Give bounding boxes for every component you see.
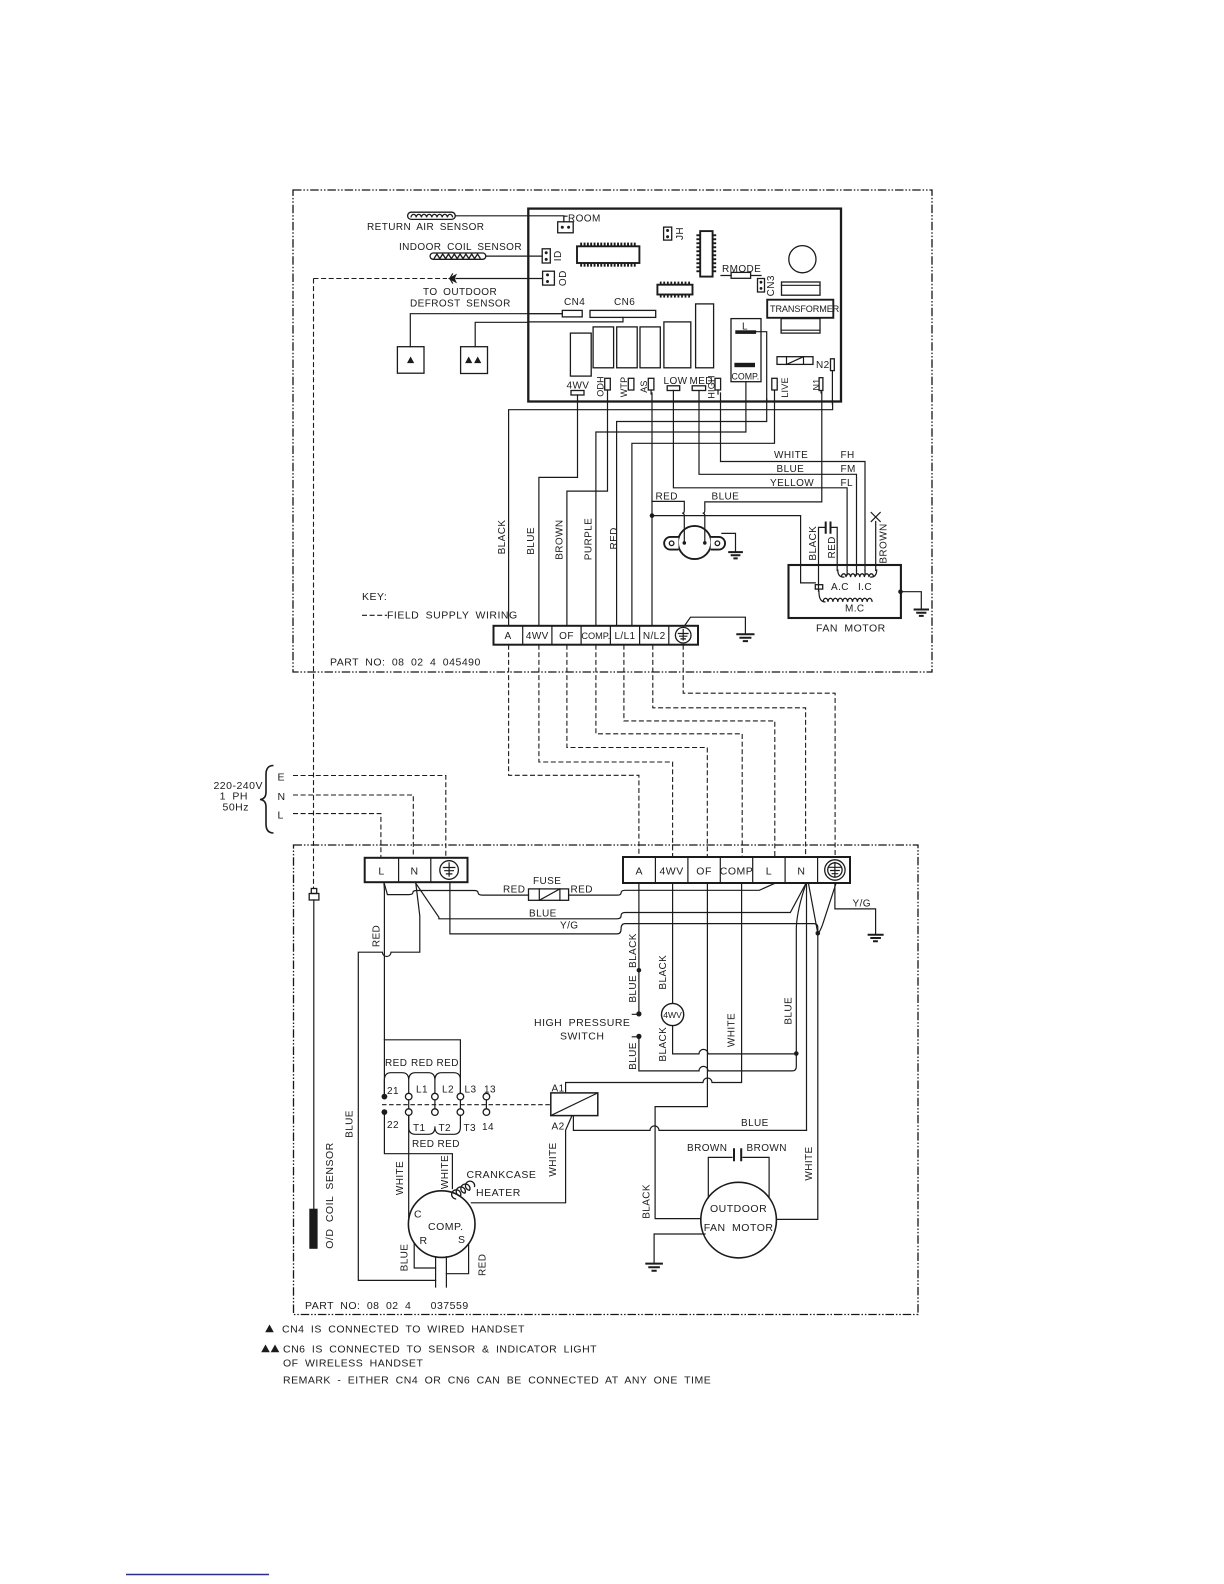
wire fan speed taps into coil bbox=[847, 571, 865, 576]
wire AS pin / N-L2 common with junction bbox=[650, 390, 653, 626]
svg-text:COMP.: COMP. bbox=[732, 372, 760, 382]
contactor terminals 21/22 L1/T1 L2/T2 L3/T3 13/14 bbox=[382, 1093, 490, 1115]
svg-text:WHITE: WHITE bbox=[804, 1146, 815, 1180]
svg-text:FIELD SUPPLY WIRING: FIELD SUPPLY WIRING bbox=[387, 610, 518, 622]
svg-text:RED: RED bbox=[411, 1058, 433, 1069]
svg-text:YELLOW: YELLOW bbox=[770, 478, 814, 489]
O/D coil sensor bulb bbox=[309, 1209, 317, 1249]
wire indoor coil sensor to ID bbox=[486, 255, 542, 257]
wire RED branch to thermostat left bbox=[652, 501, 684, 543]
svg-text:L/L1: L/L1 bbox=[614, 631, 635, 642]
wire BROWN unused with X bbox=[871, 513, 889, 571]
connector JH bbox=[664, 227, 686, 240]
wire motor frame to ground bbox=[654, 1234, 705, 1264]
wire PCB edge to CN4 bbox=[528, 313, 562, 315]
wire LIVE pin to terminal L/L1 second bbox=[632, 390, 775, 626]
relay K5 bbox=[664, 322, 691, 368]
wire ODH pin to terminal OF (BROWN) bbox=[567, 390, 608, 626]
to outdoor defrost sensor arrow and label bbox=[314, 274, 543, 310]
svg-text:PART NO: 08 02 4 045490: PART NO: 08 02 4 045490 bbox=[330, 657, 481, 669]
svg-text:FM: FM bbox=[841, 464, 856, 475]
svg-text:SWITCH: SWITCH bbox=[560, 1031, 604, 1043]
svg-text:L: L bbox=[378, 866, 384, 878]
ground (thermostat) bbox=[728, 552, 743, 558]
svg-text:BLACK: BLACK bbox=[808, 526, 819, 561]
inductor A.C/I.C coil bbox=[841, 574, 873, 577]
pin N1 bbox=[812, 378, 823, 391]
note CN6 bbox=[261, 1344, 597, 1370]
svg-text:COMP: COMP bbox=[720, 866, 754, 878]
pin ODH bbox=[595, 376, 610, 397]
svg-text:OD: OD bbox=[558, 270, 569, 286]
svg-text:BLACK: BLACK bbox=[641, 1184, 652, 1219]
fuse F2 bbox=[529, 876, 569, 900]
wire YG from earth to outdoor bbox=[450, 882, 836, 934]
svg-text:BLUE: BLUE bbox=[628, 1042, 639, 1070]
IC U1 main microcontroller DIP bbox=[577, 243, 639, 267]
pin LIVE bbox=[772, 377, 790, 397]
svg-text:A2: A2 bbox=[552, 1122, 565, 1133]
svg-text:N1: N1 bbox=[812, 379, 822, 391]
svg-text:BLACK: BLACK bbox=[628, 933, 639, 968]
wire A to high pressure switch bbox=[628, 883, 796, 1071]
labels contact numbers bbox=[387, 1085, 496, 1135]
wire N to white motor lead junction bbox=[809, 884, 818, 934]
dashed actuator line bbox=[382, 1104, 550, 1106]
svg-text:HEATER: HEATER bbox=[476, 1187, 521, 1199]
svg-text:RED: RED bbox=[385, 1058, 407, 1069]
wire LOW pin to FL (YELLOW) bbox=[673, 391, 847, 571]
wire N down to compressor common BLUE bbox=[806, 884, 808, 1131]
svg-text:FH: FH bbox=[841, 450, 855, 461]
connector CN4 bbox=[562, 297, 585, 317]
wire thermostat to ground bbox=[722, 533, 736, 552]
svg-text:RED: RED bbox=[477, 1254, 488, 1276]
outdoor terminal block A 4WV OF COMP L N earth bbox=[623, 857, 850, 883]
wire 4WV terminal to 4WV coil bbox=[658, 883, 796, 1062]
thermostat / overload protector bbox=[664, 526, 725, 559]
wire O/D sensor dashed from indoor bbox=[313, 279, 315, 889]
svg-text:T2: T2 bbox=[439, 1123, 452, 1134]
svg-text:AS: AS bbox=[639, 380, 649, 392]
svg-text:N: N bbox=[410, 866, 418, 878]
COMP relay box with L terminal bbox=[731, 319, 761, 382]
svg-text:FL: FL bbox=[841, 478, 854, 489]
svg-text:I.C: I.C bbox=[858, 582, 872, 593]
connector CN6 bbox=[590, 297, 656, 317]
svg-text:RED: RED bbox=[571, 885, 593, 896]
svg-text:BLUE: BLUE bbox=[741, 1118, 769, 1129]
wire CN6 to wireless-handset box bbox=[475, 317, 623, 346]
wire contactor feed branch to L3 bbox=[384, 1040, 460, 1094]
svg-text:FAN MOTOR: FAN MOTOR bbox=[816, 623, 886, 635]
svg-text:BLACK: BLACK bbox=[658, 955, 669, 990]
svg-text:TO OUTDOOR: TO OUTDOOR bbox=[423, 287, 497, 298]
svg-text:A: A bbox=[635, 866, 643, 878]
svg-text:WHITE: WHITE bbox=[548, 1142, 559, 1176]
resistor RMODE bbox=[721, 264, 761, 278]
svg-text:N2: N2 bbox=[816, 360, 830, 371]
svg-text:CRANKCASE: CRANKCASE bbox=[467, 1169, 537, 1181]
footer blue rule bbox=[126, 1574, 269, 1576]
node junction dot bbox=[650, 513, 655, 518]
wire HIGH pin to FH (WHITE) bbox=[718, 390, 865, 571]
fuse F1 on PCB bbox=[777, 357, 813, 365]
svg-text:CN4: CN4 bbox=[564, 297, 585, 308]
wire A2 to crankcase heater bbox=[471, 1116, 572, 1203]
IC U3 small DIP bbox=[657, 282, 692, 298]
svg-text:L: L bbox=[278, 810, 284, 822]
wire CN4 to wired-handset box bbox=[410, 314, 562, 347]
wire 22 to compressor heater end (WHITE) bbox=[384, 1115, 452, 1189]
svg-text:OF WIRELESS HANDSET: OF WIRELESS HANDSET bbox=[283, 1358, 423, 1370]
indoor coil sensor bbox=[399, 242, 522, 259]
outdoor fan motor bbox=[701, 1182, 777, 1258]
wire OF to outdoor fan motor BLACK bbox=[641, 883, 707, 1219]
connector CN3 bbox=[758, 275, 777, 296]
ground (outdoor fan) bbox=[645, 1264, 663, 1271]
wire COMP to contactor A1 bbox=[566, 883, 742, 1093]
4WV solenoid coil bbox=[662, 1003, 684, 1025]
compressor stem bbox=[436, 1257, 447, 1287]
svg-text:RED: RED bbox=[656, 492, 678, 503]
outdoor supply terminal block L N earth bbox=[365, 858, 468, 882]
svg-text:OF: OF bbox=[696, 866, 712, 878]
svg-text:4WV: 4WV bbox=[663, 1010, 682, 1020]
node fan motor frame to ground bbox=[898, 589, 903, 594]
wire top jumper hoops bbox=[384, 1073, 460, 1094]
capacitor C1 (fan) with RED wire bbox=[819, 522, 838, 592]
svg-text:KEY:: KEY: bbox=[362, 591, 387, 603]
node BLUE junction dot bbox=[794, 1051, 799, 1056]
connector ID bbox=[542, 249, 564, 263]
ground (indoor block) bbox=[736, 634, 754, 641]
svg-text:RMODE: RMODE bbox=[722, 264, 761, 275]
svg-text:T1: T1 bbox=[413, 1123, 426, 1134]
wire MED pin to FM (BLUE) bbox=[699, 391, 857, 571]
wire junction to outdoor fan motor WHITE bbox=[776, 933, 817, 1219]
svg-text:BLUE: BLUE bbox=[628, 975, 639, 1003]
svg-text:A: A bbox=[505, 631, 512, 642]
svg-text:CN4 IS CONNECTED TO WIRED HAND: CN4 IS CONNECTED TO WIRED HANDSET bbox=[282, 1324, 525, 1336]
svg-text:4WV: 4WV bbox=[659, 866, 683, 878]
crankcase heater coil bbox=[452, 1169, 537, 1199]
svg-text:OUTDOOR: OUTDOOR bbox=[710, 1203, 767, 1215]
capacitor C2 with BROWN leads bbox=[687, 1143, 787, 1198]
wire RED vertical from L to contactor bbox=[383, 882, 386, 1093]
O/D sensor plug bbox=[309, 889, 319, 901]
svg-text:WHITE: WHITE bbox=[774, 450, 808, 461]
svg-text:N: N bbox=[797, 866, 805, 878]
brace bbox=[260, 766, 274, 834]
connector OD bbox=[543, 270, 569, 286]
svg-text:COMP.: COMP. bbox=[428, 1221, 464, 1233]
wire T1 to compressor C (WHITE) bbox=[395, 1115, 409, 1217]
pin LOW bbox=[664, 376, 688, 391]
svg-text:M.C: M.C bbox=[845, 604, 865, 615]
wire compressor R to stem (BLUE) bbox=[400, 1244, 436, 1272]
svg-text:JH: JH bbox=[675, 227, 686, 240]
wire N2 to terminal A (BLACK) bbox=[509, 371, 833, 626]
svg-text:N/L2: N/L2 bbox=[643, 631, 666, 642]
PCB board outline bbox=[528, 209, 841, 402]
indoor unit dash-dot border bbox=[293, 190, 932, 672]
wire bottom jumper hoops bbox=[409, 1115, 461, 1134]
svg-text:22: 22 bbox=[387, 1120, 399, 1131]
svg-text:Y/G: Y/G bbox=[853, 899, 871, 910]
svg-text:BROWN: BROWN bbox=[879, 523, 890, 563]
svg-text:21: 21 bbox=[387, 1086, 399, 1097]
svg-text:BLUE: BLUE bbox=[400, 1244, 411, 1272]
fan motor input pad bbox=[815, 585, 822, 589]
svg-text:14: 14 bbox=[482, 1122, 494, 1133]
labels RED jumpers bottom bbox=[412, 1139, 460, 1150]
pin WTP bbox=[619, 377, 634, 398]
note CN4 bbox=[265, 1324, 525, 1336]
svg-text:ROOM: ROOM bbox=[568, 214, 601, 225]
svg-text:4WV: 4WV bbox=[526, 631, 549, 642]
inductor M.C coil bbox=[823, 598, 872, 602]
wire indoor block earth to ground bbox=[685, 617, 746, 634]
svg-text:BLUE: BLUE bbox=[777, 464, 805, 475]
wire plug to sensor bulb bbox=[313, 900, 315, 1209]
wire BLUE from N to outdoor N bbox=[416, 883, 806, 919]
svg-text:BLUE: BLUE bbox=[712, 492, 740, 503]
pin 4WV bbox=[567, 381, 590, 396]
wire contactor to BLUE run (compressor common) bbox=[573, 1116, 806, 1131]
wire N to BLUE main vertical bbox=[358, 883, 435, 1280]
node junction bbox=[816, 931, 821, 936]
svg-text:DEFROST SENSOR: DEFROST SENSOR bbox=[410, 299, 511, 310]
wire RED from L through fuse to outdoor L bbox=[384, 882, 775, 895]
fan motor box bbox=[789, 565, 901, 635]
svg-text:13: 13 bbox=[484, 1085, 496, 1096]
svg-text:L: L bbox=[766, 866, 772, 878]
svg-text:L3: L3 bbox=[465, 1085, 477, 1096]
svg-text:INDOOR COIL SENSOR: INDOOR COIL SENSOR bbox=[399, 242, 522, 253]
wire E dashed to earth terminal bbox=[293, 776, 446, 859]
svg-text:ODH: ODH bbox=[595, 376, 605, 397]
connector ROOM bbox=[558, 214, 601, 233]
buzzer circle bbox=[789, 246, 816, 273]
svg-text:RED: RED bbox=[503, 885, 525, 896]
svg-text:LIVE: LIVE bbox=[780, 377, 790, 397]
svg-text:N: N bbox=[278, 791, 286, 803]
wire N dashed to N terminal bbox=[293, 795, 413, 858]
svg-text:RETURN AIR SENSOR: RETURN AIR SENSOR bbox=[367, 222, 484, 233]
svg-text:C: C bbox=[414, 1209, 422, 1221]
svg-text:WHITE: WHITE bbox=[395, 1161, 406, 1195]
svg-text:TRANSFORMER: TRANSFORMER bbox=[770, 304, 840, 314]
wire compressor S to stem (RED) bbox=[446, 1244, 488, 1276]
svg-text:CN3: CN3 bbox=[766, 275, 777, 296]
ground (fan motor) bbox=[914, 610, 929, 616]
relay K6 bbox=[696, 304, 714, 368]
labels RED jumpers top bbox=[385, 1058, 459, 1069]
svg-text:BROWN: BROWN bbox=[687, 1143, 727, 1154]
svg-text:BLUE: BLUE bbox=[526, 527, 537, 555]
svg-text:ID: ID bbox=[553, 250, 564, 261]
switch contacts bbox=[632, 1011, 641, 1039]
svg-text:FAN MOTOR: FAN MOTOR bbox=[704, 1222, 774, 1234]
wireless handset box (double triangle) bbox=[461, 347, 488, 374]
outdoor unit dash-dot border bbox=[294, 845, 919, 1315]
svg-text:OF: OF bbox=[559, 631, 574, 642]
svg-text:WTP: WTP bbox=[619, 377, 629, 398]
svg-text:HIGH PRESSURE: HIGH PRESSURE bbox=[534, 1017, 630, 1029]
relay K1 bbox=[570, 333, 591, 376]
svg-text:PURPLE: PURPLE bbox=[584, 518, 595, 560]
wire COMP-L bar to vertical drop bbox=[756, 332, 767, 402]
svg-text:BROWN: BROWN bbox=[554, 519, 565, 559]
high pressure switch label bbox=[534, 1017, 630, 1043]
svg-text:Y/G: Y/G bbox=[560, 921, 578, 932]
pin HIGH bbox=[706, 375, 720, 398]
field supply wiring dashed runs indoor->outdoor bbox=[509, 645, 639, 857]
svg-text:A.C: A.C bbox=[831, 582, 849, 593]
wire COMP-L to terminal L/L1 bbox=[617, 399, 767, 626]
wire BLACK branch to fan motor bbox=[652, 516, 815, 583]
svg-text:REMARK - EITHER CN4 OR CN6 CAN: REMARK - EITHER CN4 OR CN6 CAN BE CONNEC… bbox=[283, 1375, 711, 1387]
wire N to BLUE junction (4WV coil return) bbox=[796, 884, 806, 1054]
relay K3 bbox=[617, 327, 638, 368]
wired handset box (triangle) bbox=[397, 347, 424, 374]
svg-text:BROWN: BROWN bbox=[747, 1143, 787, 1154]
svg-text:CN6 IS CONNECTED TO SENSOR & I: CN6 IS CONNECTED TO SENSOR & INDICATOR L… bbox=[283, 1344, 597, 1356]
wire N1 to thermostat right (BLUE) bbox=[703, 391, 822, 543]
svg-text:RED: RED bbox=[438, 1139, 460, 1150]
svg-text:RED: RED bbox=[412, 1139, 434, 1150]
wire 4WV pin to terminal 4WV (BLUE) bbox=[539, 395, 578, 626]
compressor COMP bbox=[408, 1191, 475, 1258]
svg-text:L2: L2 bbox=[442, 1085, 454, 1096]
svg-text:RED: RED bbox=[371, 925, 382, 947]
svg-text:RED: RED bbox=[437, 1058, 459, 1069]
pin N2 bbox=[816, 359, 834, 371]
return air sensor RT bbox=[367, 212, 484, 233]
wire COMP relay to terminal COMP. (PURPLE) bbox=[596, 382, 746, 626]
svg-text:WHITE: WHITE bbox=[440, 1155, 451, 1189]
svg-text:BLUE: BLUE bbox=[529, 909, 557, 920]
svg-text:R: R bbox=[420, 1235, 428, 1247]
svg-text:PART NO: 08 02 4 037559: PART NO: 08 02 4 037559 bbox=[305, 1300, 469, 1312]
contactor coil A1/A2 bbox=[551, 1084, 598, 1133]
svg-text:COMP.: COMP. bbox=[581, 631, 610, 641]
svg-text:L1: L1 bbox=[416, 1085, 428, 1096]
svg-text:RED: RED bbox=[827, 536, 838, 558]
svg-text:BLACK: BLACK bbox=[497, 520, 508, 555]
transformer T1 bbox=[767, 282, 839, 333]
relay K4 bbox=[640, 327, 660, 368]
svg-text:A1: A1 bbox=[552, 1084, 565, 1095]
svg-text:E: E bbox=[278, 772, 286, 784]
svg-text:FUSE: FUSE bbox=[533, 876, 561, 887]
pin MED bbox=[690, 376, 713, 391]
pin AS bbox=[639, 378, 654, 393]
svg-text:S: S bbox=[458, 1234, 466, 1246]
wire return air sensor to ROOM bbox=[455, 216, 564, 222]
svg-text:50Hz: 50Hz bbox=[222, 802, 249, 814]
svg-text:BLACK: BLACK bbox=[658, 1027, 669, 1062]
svg-text:WHITE: WHITE bbox=[727, 1013, 738, 1047]
relay K2 bbox=[593, 327, 614, 368]
svg-text:BLUE: BLUE bbox=[784, 997, 795, 1025]
svg-text:CN6: CN6 bbox=[614, 297, 635, 308]
indoor terminal block bbox=[494, 626, 699, 645]
IC U2 vertical DIP bbox=[696, 231, 716, 277]
svg-text:RED: RED bbox=[609, 527, 620, 549]
svg-text:O/D COIL SENSOR: O/D COIL SENSOR bbox=[324, 1142, 336, 1248]
supply labels 220-240V 1PH 50Hz bbox=[213, 780, 263, 814]
key text bbox=[362, 591, 518, 622]
svg-text:T3: T3 bbox=[464, 1123, 477, 1134]
svg-text:BLUE: BLUE bbox=[344, 1110, 355, 1138]
wire L dashed to L terminal bbox=[293, 814, 381, 858]
wire YG outdoor earth to chassis ground bbox=[835, 883, 884, 941]
